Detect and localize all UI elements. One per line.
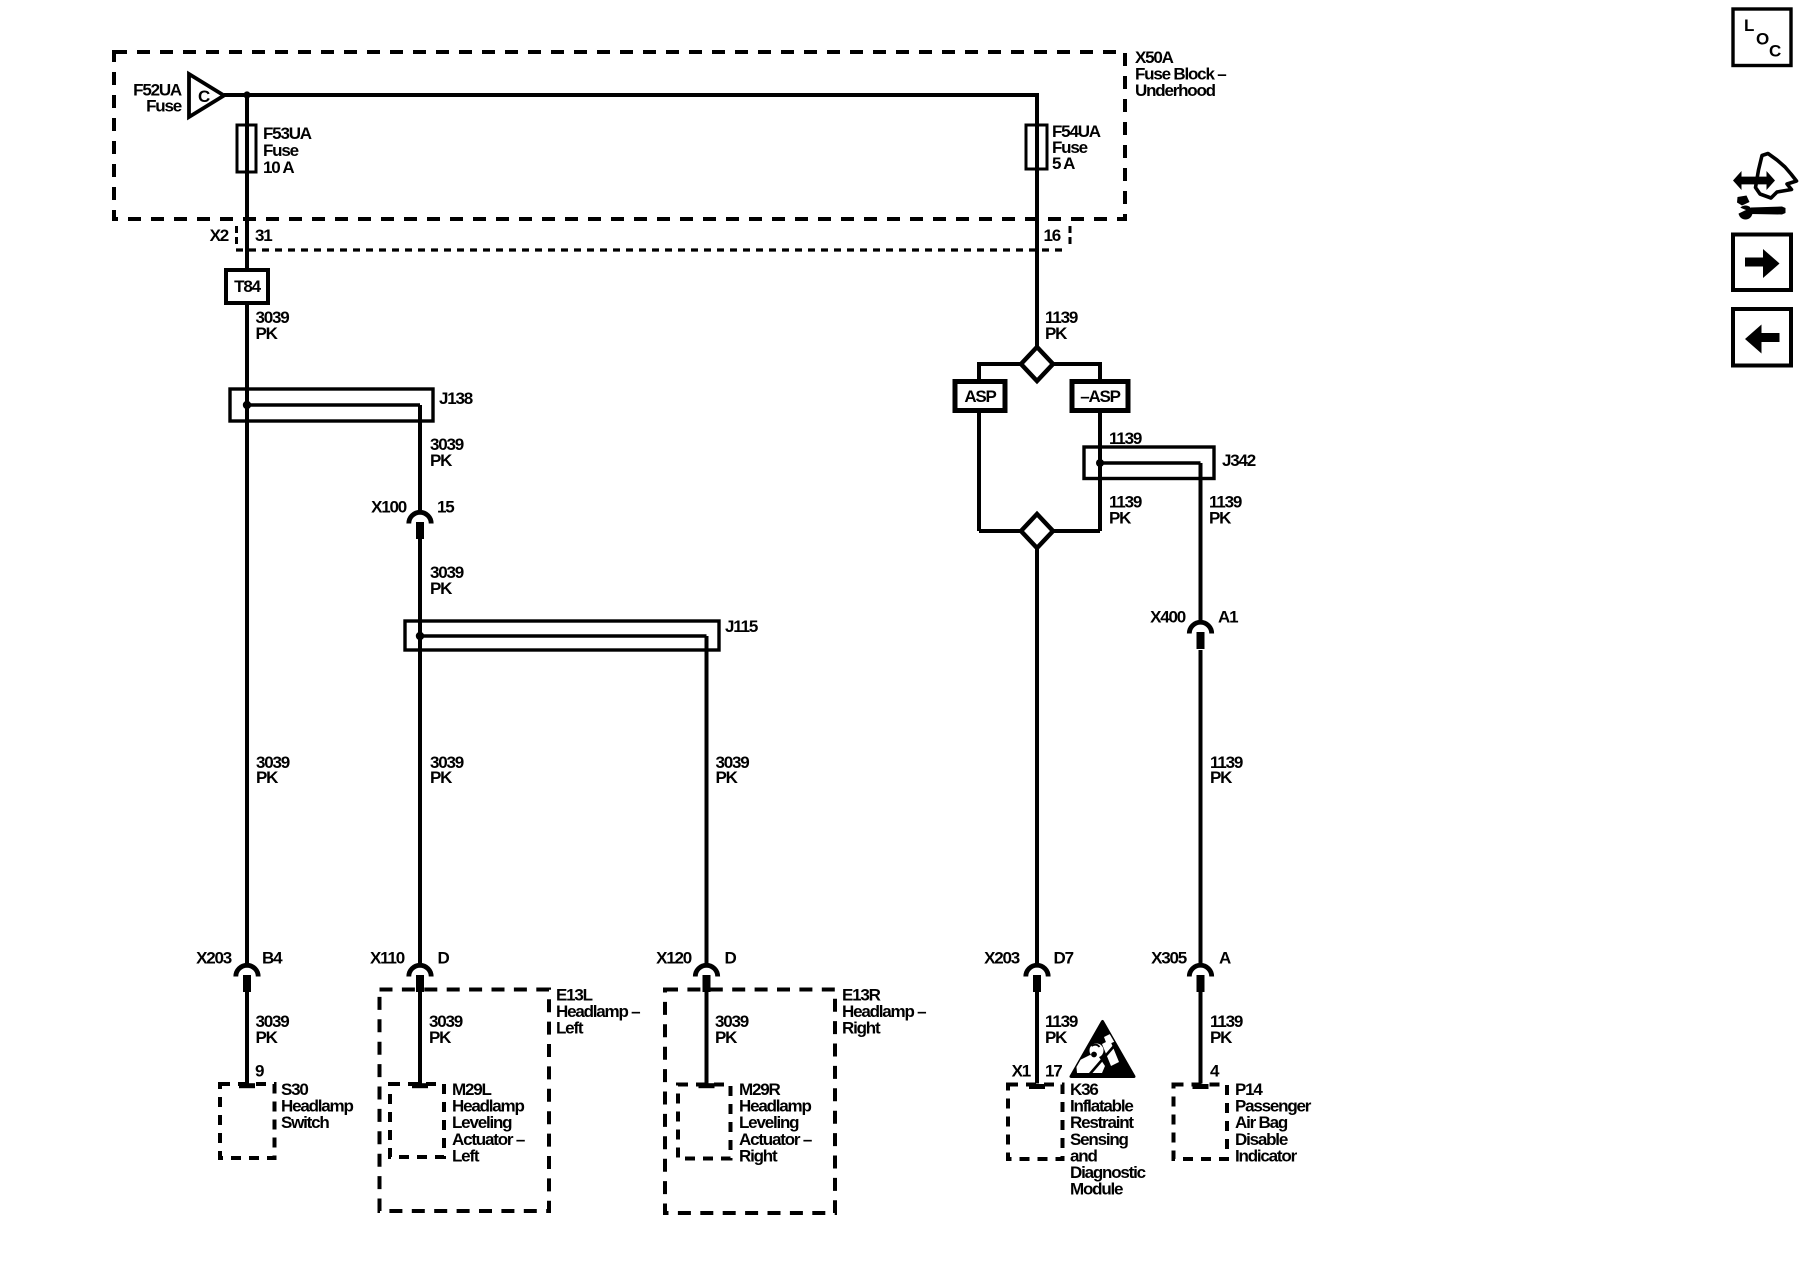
svg-text:PK: PK (1045, 324, 1068, 343)
svg-text:PK: PK (1209, 509, 1232, 528)
svg-text:X203: X203 (196, 949, 232, 968)
svg-text:PK: PK (1109, 509, 1132, 528)
svg-text:1139: 1139 (1109, 429, 1142, 448)
svg-text:D: D (438, 949, 450, 968)
svg-text:Indicator: Indicator (1235, 1146, 1298, 1165)
svg-text:D7: D7 (1054, 949, 1074, 968)
svg-text:Left: Left (452, 1146, 480, 1165)
svg-text:T84: T84 (234, 277, 261, 296)
svg-text:X1: X1 (1012, 1062, 1031, 1081)
svg-text:PK: PK (256, 1028, 279, 1047)
svg-text:PK: PK (1045, 1028, 1068, 1047)
svg-text:Right: Right (842, 1019, 881, 1038)
svg-text:O: O (1756, 30, 1769, 49)
svg-text:X100: X100 (371, 498, 407, 517)
svg-text:A: A (1219, 949, 1231, 968)
svg-text:Switch: Switch (281, 1113, 329, 1132)
svg-text:L: L (1744, 16, 1754, 35)
svg-text:X120: X120 (656, 949, 692, 968)
svg-text:9: 9 (255, 1062, 264, 1081)
svg-text:X305: X305 (1151, 949, 1187, 968)
svg-text:PK: PK (256, 324, 279, 343)
svg-text:X203: X203 (984, 949, 1020, 968)
svg-text:J342: J342 (1222, 451, 1256, 470)
svg-text:Underhood: Underhood (1135, 81, 1216, 100)
svg-text:Module: Module (1070, 1180, 1123, 1199)
svg-text:X2: X2 (210, 226, 229, 245)
svg-text:PK: PK (430, 768, 453, 787)
svg-text:PK: PK (1210, 1028, 1233, 1047)
svg-text:PK: PK (429, 1028, 452, 1047)
svg-text:16: 16 (1043, 226, 1060, 245)
svg-text:Fuse: Fuse (146, 97, 182, 116)
svg-text:A1: A1 (1218, 608, 1238, 627)
svg-text:PK: PK (715, 1028, 738, 1047)
svg-text:J138: J138 (439, 389, 473, 408)
svg-text:PK: PK (256, 768, 279, 787)
svg-text:D: D (725, 949, 737, 968)
svg-text:PK: PK (430, 579, 453, 598)
svg-text:15: 15 (437, 498, 454, 517)
svg-text:31: 31 (255, 226, 272, 245)
svg-text:C: C (198, 87, 210, 106)
svg-text:–ASP: –ASP (1080, 387, 1120, 406)
svg-text:PK: PK (430, 451, 453, 470)
svg-text:Left: Left (556, 1019, 584, 1038)
svg-text:J115: J115 (725, 617, 758, 636)
svg-text:PK: PK (716, 768, 739, 787)
svg-text:C: C (1769, 41, 1781, 60)
svg-text:17: 17 (1045, 1062, 1062, 1081)
svg-text:X110: X110 (370, 949, 405, 968)
svg-text:Right: Right (739, 1146, 778, 1165)
svg-text:ASP: ASP (964, 387, 996, 406)
svg-text:10 A: 10 A (263, 158, 294, 177)
svg-text:B4: B4 (262, 949, 283, 968)
svg-text:X400: X400 (1150, 608, 1186, 627)
svg-text:5 A: 5 A (1052, 154, 1075, 173)
svg-text:PK: PK (1210, 768, 1233, 787)
